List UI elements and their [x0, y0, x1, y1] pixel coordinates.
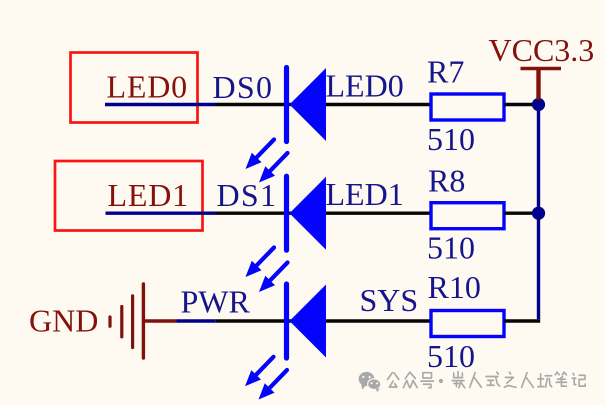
- svg-text:R10: R10: [428, 269, 481, 305]
- svg-text:R8: R8: [428, 163, 465, 199]
- wire: R8 to VCC rail (black): [504, 211, 538, 214]
- watermark glyph 坑: [538, 374, 552, 387]
- svg-text:510: 510: [427, 121, 475, 157]
- svg-text:LED1: LED1: [326, 176, 404, 212]
- LED triangle: [290, 285, 327, 358]
- wire: VCC rail vertical (navy): [537, 105, 540, 320]
- svg-text:LED0: LED0: [326, 68, 404, 104]
- svg-text:DS1: DS1: [217, 177, 278, 213]
- watermark glyph 公: [388, 373, 399, 387]
- watermark glyph 嵌: [452, 372, 465, 388]
- LED light arrow 1: [245, 357, 274, 387]
- wire: net stub under LED0 port (navy): [105, 103, 216, 106]
- wire: PWR net stub (navy): [177, 319, 216, 322]
- LED triangle: [290, 68, 327, 141]
- LED cathode bar: [284, 284, 289, 358]
- wire: GND to PWR net (dark red): [143, 319, 176, 322]
- wire: PWR to LED (black): [216, 319, 431, 322]
- LED light arrow 2: [259, 153, 288, 183]
- watermark glyph 记: [572, 373, 585, 386]
- watermark WeChat icon big bubble: [359, 372, 375, 390]
- watermark glyph 笔: [555, 372, 566, 386]
- svg-text:LED1: LED1: [108, 177, 189, 213]
- junction dot at R8/VCC: [532, 207, 545, 220]
- svg-text:VCC3.3: VCC3.3: [489, 32, 595, 68]
- watermark glyph 之: [504, 372, 516, 387]
- LED DS1: [287, 176, 327, 250]
- ground symbol bar 4 (tallest): [142, 284, 145, 358]
- LED PWR: [287, 284, 327, 358]
- LED cathode bar: [284, 176, 289, 250]
- power symbol VCC3.3 bar: [521, 67, 562, 71]
- svg-text:SYS: SYS: [360, 282, 419, 318]
- junction dot at R7/VCC: [532, 98, 545, 111]
- wire: net stub under LED1 port (navy): [106, 211, 216, 214]
- selection box around port LED0: [71, 53, 198, 123]
- resistor R10 body: [431, 311, 504, 337]
- ground symbol bar 3: [131, 296, 134, 348]
- selection box around port LED1: [55, 161, 203, 231]
- wire: R10 to rail corner (black): [504, 319, 540, 322]
- wire: DS0 to resistor R7 (black): [216, 103, 432, 106]
- watermark WeChat icon small bubble: [368, 379, 381, 392]
- LED light arrow 1: [246, 248, 275, 278]
- svg-text:510: 510: [427, 338, 475, 374]
- resistor R7 body: [431, 94, 504, 120]
- watermark glyph 式: [486, 372, 500, 386]
- svg-text:PWR: PWR: [181, 284, 251, 320]
- svg-text:LED0: LED0: [107, 69, 188, 105]
- resistor R8 body: [431, 203, 504, 229]
- LED triangle: [290, 177, 327, 250]
- LED light arrow 1: [246, 140, 275, 170]
- watermark glyph 入: [470, 373, 482, 388]
- svg-text:GND: GND: [29, 303, 98, 339]
- watermark glyph 入: [522, 373, 534, 388]
- LED cathode bar: [284, 68, 289, 142]
- watermark separator dot: [439, 379, 443, 383]
- wire: R7 to VCC rail (black): [504, 103, 538, 106]
- wire: DS1 to resistor R8 (black): [216, 211, 432, 214]
- LED light arrow 2: [259, 263, 288, 293]
- svg-text:DS0: DS0: [213, 69, 274, 105]
- svg-text:R7: R7: [427, 54, 464, 90]
- svg-text:510: 510: [427, 229, 475, 265]
- watermark glyph 众: [403, 372, 417, 387]
- LED light arrow 2: [259, 370, 288, 400]
- watermark glyph 号: [421, 373, 433, 388]
- ground symbol bar 2: [120, 307, 123, 337]
- power symbol VCC3.3 stem: [536, 69, 540, 100]
- LED DS0: [287, 68, 327, 142]
- ground symbol bar 1 (smallest): [108, 317, 111, 326]
